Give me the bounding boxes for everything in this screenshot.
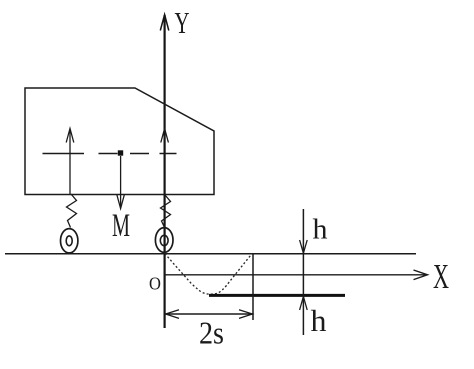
left up arrow: [69, 130, 71, 194]
ground line: [5, 253, 416, 255]
svg-text:h: h: [311, 303, 328, 338]
X axis arrowhead: [414, 270, 428, 280]
up arrowhead on Y axis: [161, 129, 169, 143]
h dimension vertical line: [302, 209, 304, 335]
right edge tick of dip: [252, 254, 254, 321]
right wheel: [155, 228, 173, 253]
dashed centerline through mass center: [43, 153, 177, 155]
X axis: [165, 274, 427, 276]
Y axis: [164, 15, 166, 328]
svg-text:h: h: [313, 214, 329, 246]
svg-text:2s: 2s: [199, 315, 224, 351]
vehicle body outline: [25, 88, 214, 195]
2s dimension line: [166, 313, 253, 315]
svg-text:X: X: [433, 257, 449, 296]
Y axis arrowhead: [160, 15, 169, 31]
svg-text:Y: Y: [175, 5, 190, 40]
left wheel: [60, 229, 77, 253]
svg-text:M: M: [112, 208, 130, 244]
up arrowhead at bottom level: [300, 297, 308, 311]
down arrowhead at ground: [300, 240, 308, 253]
mass center square: [118, 150, 123, 155]
right spring: [161, 195, 171, 228]
thick bottom level line: [209, 294, 345, 297]
road dip curve (dotted): [165, 254, 252, 295]
left spring: [67, 194, 77, 228]
svg-text:O: O: [149, 274, 161, 294]
M weight down arrow: [120, 156, 122, 207]
